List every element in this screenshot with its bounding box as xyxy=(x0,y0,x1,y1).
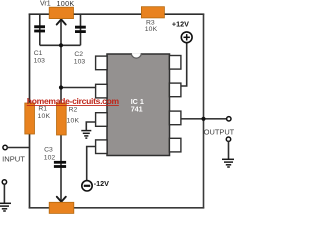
wire C1 branch xyxy=(39,14,41,45)
svg-text:103: 103 xyxy=(34,58,46,65)
svg-text:10K: 10K xyxy=(38,113,51,120)
pin 8 xyxy=(169,56,181,70)
svg-text:C3: C3 xyxy=(44,146,53,153)
pin 1 xyxy=(96,56,108,70)
wire bottom rail xyxy=(29,207,205,209)
wiper arrow of bottom preset xyxy=(57,197,66,202)
wire input branch xyxy=(7,147,29,149)
terminal INPUT ground xyxy=(2,180,6,184)
svg-text:INPUT: INPUT xyxy=(2,155,25,164)
svg-text:OUTPUT: OUTPUT xyxy=(204,128,234,137)
resistor R2 xyxy=(57,103,67,135)
battery symbol +12V xyxy=(181,32,192,43)
resistor R3 xyxy=(141,7,164,18)
pin 7 xyxy=(169,83,181,97)
ground G1 (pin3) xyxy=(81,131,91,139)
node B junction (pin2 tap) xyxy=(59,85,63,89)
wire output ground stub xyxy=(228,141,230,159)
svg-text:102: 102 xyxy=(44,155,56,162)
svg-text:100K: 100K xyxy=(57,0,75,8)
IC notch xyxy=(131,53,141,58)
svg-text:741: 741 xyxy=(131,104,143,113)
ground G2 (output) xyxy=(222,159,235,167)
battery symbol -12V xyxy=(82,181,92,191)
pin 3 xyxy=(96,113,108,127)
pin 2 xyxy=(96,84,108,98)
wire right rail xyxy=(203,14,205,209)
pin 6 xyxy=(169,111,181,125)
svg-text:+12V: +12V xyxy=(172,20,189,29)
wire capacitor bottom bus xyxy=(40,44,81,46)
svg-text:R1: R1 xyxy=(38,106,47,113)
svg-text:C1: C1 xyxy=(34,50,43,57)
wire pin6 output branch xyxy=(181,118,227,120)
potentiometer Vr1 xyxy=(49,7,73,18)
node C junction (output/right rail) xyxy=(201,117,205,121)
wire top rail xyxy=(29,13,205,15)
svg-text:10K: 10K xyxy=(67,117,80,124)
capacitor C2 xyxy=(75,26,86,33)
svg-text:-12V: -12V xyxy=(94,179,109,188)
ground G3 (input) xyxy=(0,203,11,211)
svg-text:10K: 10K xyxy=(145,26,158,33)
svg-text:103: 103 xyxy=(74,59,86,66)
wire C2 branch xyxy=(80,14,82,45)
capacitor C1 xyxy=(34,25,45,32)
svg-text:Vr1: Vr1 xyxy=(40,0,51,7)
resistor R1 xyxy=(25,103,35,134)
node A junction (wiper/cap bus) xyxy=(59,43,63,47)
wire center vertical (wiper/R2/C3 chain) xyxy=(60,20,62,201)
svg-text:homemade-circuits.com: homemade-circuits.com xyxy=(27,96,120,106)
op-amp IC1 741 body xyxy=(107,54,170,156)
svg-text:R2: R2 xyxy=(69,106,78,113)
terminal INPUT signal xyxy=(3,145,7,149)
svg-text:C2: C2 xyxy=(74,51,83,58)
wire input ground stub xyxy=(3,184,5,203)
pin 4 xyxy=(96,140,108,154)
wire pin2 branch xyxy=(61,87,97,89)
capacitor C3 xyxy=(54,161,66,168)
wiper arrow of Vr1 xyxy=(57,19,66,24)
wire pin3 branch xyxy=(86,122,96,130)
preset resistor bottom xyxy=(49,202,74,213)
wire pin7 branch to +12V xyxy=(181,43,187,86)
terminal OUTPUT signal xyxy=(227,117,231,121)
wire left rail xyxy=(29,14,31,209)
wire pin4 branch to -12V xyxy=(87,147,97,181)
terminal OUTPUT ground xyxy=(226,137,230,141)
pin 5 xyxy=(169,138,181,152)
